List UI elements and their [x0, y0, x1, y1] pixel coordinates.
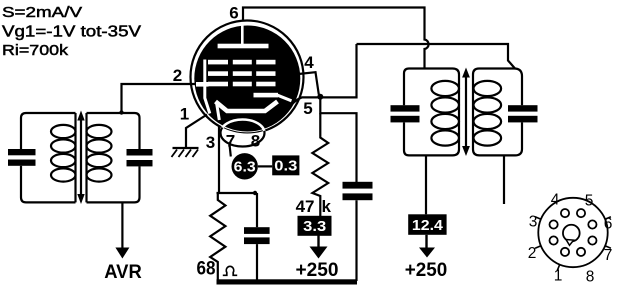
- ground: [173, 147, 199, 149]
- socket tick 3: [535, 217, 541, 219]
- grid row 3 dashes: [208, 82, 228, 87]
- junction rc rail: [253, 191, 257, 195]
- junction pin2/transformer: [119, 110, 123, 114]
- svg-text:S=2mA/V: S=2mA/V: [2, 5, 82, 21]
- svg-text:6: 6: [229, 4, 238, 23]
- svg-text:4: 4: [304, 53, 314, 72]
- wire cathode rc rail: [217, 192, 258, 194]
- socket key notch: [566, 240, 574, 246]
- svg-text:1: 1: [554, 268, 563, 285]
- socket hole pin1: [561, 248, 569, 256]
- socket hole pin3: [550, 220, 558, 228]
- anode plate bar: [218, 44, 269, 49]
- capacitor T1 right: [127, 149, 153, 156]
- svg-text:Vg1=-1V tot-35V: Vg1=-1V tot-35V: [2, 24, 142, 41]
- resistor 68: [210, 193, 225, 281]
- svg-text:5: 5: [585, 193, 594, 210]
- svg-text:0.3: 0.3: [274, 158, 297, 175]
- socket center hole: [563, 225, 580, 242]
- left transformer T1 left loop: [21, 113, 76, 202]
- value 12.4 box: [408, 214, 446, 235]
- capacitor screen decoupling: [343, 182, 373, 189]
- svg-text:AVR: AVR: [104, 262, 142, 283]
- svg-text:k: k: [322, 197, 332, 216]
- pin5 white stub: [278, 95, 292, 101]
- wire pin4 to T2: [357, 44, 516, 69]
- bottom rail: [217, 279, 358, 284]
- wire 6.3 to 0.3: [258, 165, 272, 167]
- T1 secondary coil loops: [87, 125, 112, 138]
- wire AVR drop: [121, 202, 123, 249]
- wire pin3 cathode down: [218, 127, 220, 194]
- grid row 2 dashes: [208, 71, 228, 76]
- T1 primary coil loops: [51, 125, 76, 138]
- T1 tuning arrow: [80, 118, 82, 198]
- svg-text:7: 7: [604, 247, 613, 264]
- svg-text:+250: +250: [405, 260, 448, 281]
- grid lead white left: [205, 60, 210, 114]
- svg-text:2: 2: [173, 66, 182, 85]
- wire T2 secondary dangling: [503, 155, 505, 204]
- right transformer T2 left loop: [404, 69, 459, 156]
- junction node A: [317, 94, 323, 100]
- pin2 white stub: [196, 82, 209, 87]
- wire pin1 to ground: [186, 115, 207, 149]
- capacitor T1 left: [8, 149, 36, 155]
- T2 tuning arrow: [465, 76, 467, 148]
- grid row 1 dashes: [208, 60, 228, 65]
- svg-text:3: 3: [529, 214, 538, 231]
- svg-text:47: 47: [296, 197, 315, 216]
- cathode lead white: [217, 103, 220, 121]
- right transformer T2 right loop: [473, 69, 522, 156]
- svg-text:3: 3: [206, 133, 215, 152]
- tube electrode disc: [194, 26, 300, 132]
- svg-text:6: 6: [604, 216, 613, 233]
- svg-text:+250: +250: [296, 260, 339, 281]
- svg-text:4: 4: [551, 192, 560, 209]
- tube envelope U1: [191, 21, 304, 134]
- socket hole pin6: [588, 220, 596, 228]
- socket hole pin2: [550, 236, 558, 244]
- left transformer T1 right loop: [87, 113, 140, 202]
- wire node A down branch: [320, 97, 356, 184]
- wire heater to 6.3: [230, 145, 231, 157]
- value 0.3 box: [272, 155, 299, 175]
- socket hole pin4: [561, 209, 569, 217]
- svg-text:8: 8: [586, 269, 595, 286]
- T2 primary coil loops: [431, 81, 459, 96]
- heater circle white arc over disc: [221, 120, 265, 147]
- svg-text:8: 8: [251, 132, 260, 151]
- socket tick 1: [557, 265, 559, 271]
- capacitor T2 left: [391, 105, 420, 111]
- svg-text:3.3: 3.3: [303, 218, 326, 235]
- anode lead white (pin 6): [241, 22, 244, 45]
- socket tick 7: [605, 246, 611, 248]
- svg-text:6.3: 6.3: [234, 158, 256, 175]
- svg-text:1: 1: [180, 105, 189, 124]
- wire T2 primary to 12.4: [425, 155, 427, 214]
- svg-text:Ri=700k: Ri=700k: [2, 42, 69, 59]
- socket outline: [538, 198, 607, 267]
- capacitor cathode: [256, 193, 258, 227]
- cathode chevron: [216, 102, 278, 112]
- socket hole pin8: [577, 248, 585, 256]
- svg-text:68: 68: [197, 259, 216, 280]
- capacitor T2 right: [508, 105, 538, 111]
- socket tick 2: [535, 246, 541, 248]
- socket hole pin7: [588, 236, 596, 244]
- ohm glyph: [223, 266, 237, 275]
- grid row 4 dash: [254, 93, 279, 98]
- socket hole pin5: [577, 209, 585, 217]
- wire pin6 top rail with hop over pin4 wire: [243, 8, 429, 69]
- arrow to +250 (anode): [425, 235, 427, 249]
- resistor 47k: [312, 113, 328, 216]
- T2 secondary coil loops: [474, 81, 502, 96]
- socket tick 6: [605, 217, 611, 219]
- svg-text:12.4: 12.4: [412, 217, 444, 234]
- svg-text:2: 2: [528, 245, 537, 262]
- wire pin5: [287, 44, 357, 109]
- svg-text:5: 5: [303, 99, 312, 118]
- heater circle black arc outside disc: [221, 120, 265, 147]
- value 6.3 circle: [232, 153, 258, 179]
- wire pin2 horizontal: [122, 84, 197, 113]
- value 3.3 box: [298, 216, 332, 236]
- wire pin4: [299, 72, 319, 94]
- arrow to +250 (screen): [317, 234, 319, 249]
